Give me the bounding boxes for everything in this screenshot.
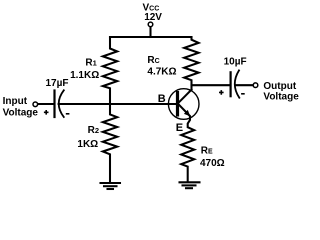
svg-text:R1: R1: [85, 58, 96, 69]
svg-text:Voltage: Voltage: [3, 107, 39, 118]
svg-text:Voltage: Voltage: [263, 92, 299, 103]
svg-text:1.1KΩ: 1.1KΩ: [70, 70, 99, 81]
svg-text:10µF: 10µF: [224, 57, 247, 68]
svg-text:470Ω: 470Ω: [200, 158, 225, 169]
svg-text:17µF: 17µF: [46, 78, 69, 89]
svg-text:1KΩ: 1KΩ: [77, 139, 98, 150]
svg-text:E: E: [176, 122, 183, 134]
svg-text:B: B: [158, 93, 166, 105]
svg-text:12V: 12V: [144, 12, 162, 23]
svg-text:4.7KΩ: 4.7KΩ: [147, 66, 176, 77]
svg-text:RC: RC: [147, 55, 159, 66]
svg-text:Output: Output: [263, 81, 296, 92]
svg-text:RE: RE: [201, 145, 213, 156]
svg-text:Input: Input: [3, 96, 28, 107]
svg-text:R2: R2: [88, 125, 99, 136]
